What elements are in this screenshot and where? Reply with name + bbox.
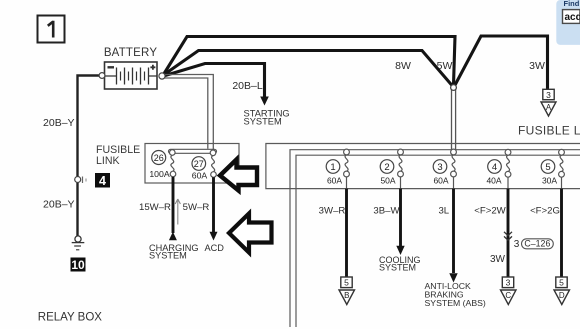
fuse 2 50A bbox=[380, 149, 403, 185]
svg-text:5: 5 bbox=[545, 162, 550, 173]
svg-text:FUSIBLE LINK: FUSIBLE LINK bbox=[518, 124, 580, 138]
svg-text:15W–R: 15W–R bbox=[139, 202, 171, 213]
callout 4 bbox=[95, 173, 110, 188]
flow arrow up bbox=[175, 199, 180, 225]
svg-text:BATTERY: BATTERY bbox=[104, 47, 158, 59]
svg-text:Find: Find bbox=[564, 0, 580, 8]
fuse 26 100A bbox=[149, 150, 175, 179]
svg-text:LINK: LINK bbox=[96, 155, 120, 167]
wire battery negative to ground bbox=[78, 76, 101, 237]
svg-text:3: 3 bbox=[506, 278, 511, 288]
wire fuse1 to connector B bbox=[346, 177, 348, 189]
svg-text:5: 5 bbox=[559, 278, 564, 288]
svg-text:1: 1 bbox=[330, 162, 335, 173]
svg-text:2: 2 bbox=[384, 162, 389, 173]
wire 5W top feed bbox=[164, 37, 456, 86]
svg-text:ACD: ACD bbox=[205, 243, 225, 253]
wire fuse4 to connector C bbox=[507, 177, 509, 188]
svg-text:3: 3 bbox=[437, 162, 442, 173]
svg-text:100A: 100A bbox=[149, 169, 169, 179]
relay box inner border bbox=[296, 155, 580, 327]
svg-text:3: 3 bbox=[546, 90, 551, 100]
wire battery to bus bar (inner thin) bbox=[164, 78, 208, 149]
svg-text:<F>2G: <F>2G bbox=[530, 206, 560, 217]
svg-text:D: D bbox=[559, 291, 565, 300]
connector 3-C bbox=[501, 277, 517, 305]
STARTING SYSTEM label bbox=[244, 108, 290, 126]
svg-text:4: 4 bbox=[99, 174, 106, 188]
COOLING SYSTEM label bbox=[379, 255, 421, 273]
page number box 1 bbox=[38, 16, 65, 43]
svg-text:A: A bbox=[546, 103, 552, 112]
svg-text:4: 4 bbox=[492, 162, 497, 173]
wire 5W-R to ACD bbox=[212, 177, 215, 232]
fusible link band (bus strip) bbox=[266, 144, 580, 189]
svg-text:3L: 3L bbox=[438, 206, 449, 217]
bus bar bbox=[169, 149, 217, 153]
fuse 3 60A bbox=[433, 149, 456, 185]
big arrow 2 bbox=[229, 214, 272, 253]
svg-text:60A: 60A bbox=[433, 176, 448, 186]
ANTI-LOCK BRAKING SYSTEM label bbox=[425, 281, 486, 308]
fuse 1 60A bbox=[326, 149, 349, 185]
svg-text:B: B bbox=[344, 291, 349, 300]
svg-text:SYSTEM: SYSTEM bbox=[149, 250, 187, 260]
svg-text:SYSTEM (ABS): SYSTEM (ABS) bbox=[425, 298, 486, 308]
wire 8W feed bbox=[164, 51, 453, 87]
connector 3-A bbox=[541, 89, 556, 116]
battery B bbox=[105, 62, 158, 89]
wire fuse2 to cooling system bbox=[400, 177, 402, 189]
svg-text:C–126: C–126 bbox=[524, 239, 550, 249]
svg-text:27: 27 bbox=[194, 159, 204, 169]
FUSIBLE LINK label left bbox=[96, 144, 140, 167]
svg-text:SYSTEM: SYSTEM bbox=[379, 263, 416, 273]
battery negative terminal bbox=[99, 73, 105, 79]
inline connector chevrons bbox=[504, 232, 512, 240]
svg-text:C: C bbox=[505, 291, 511, 300]
svg-text:5W–R: 5W–R bbox=[183, 202, 210, 213]
fuse 4 40A bbox=[486, 149, 510, 185]
connector 5-D bbox=[554, 277, 570, 305]
battery positive terminal bbox=[159, 73, 165, 79]
svg-text:8W: 8W bbox=[395, 60, 411, 72]
svg-text:RELAY BOX: RELAY BOX bbox=[38, 312, 102, 324]
svg-text:26: 26 bbox=[154, 153, 164, 163]
connector 5-B bbox=[339, 277, 355, 305]
svg-text:40A: 40A bbox=[486, 176, 501, 186]
fuse 5 30A bbox=[541, 149, 564, 185]
svg-text:3: 3 bbox=[514, 239, 520, 250]
wire battery to fuse 27 (outer thin) bbox=[164, 75, 214, 151]
svg-text:10: 10 bbox=[71, 258, 85, 272]
svg-text:20B–Y: 20B–Y bbox=[43, 117, 75, 129]
label 3 C-126 bbox=[514, 239, 554, 250]
fusible link box 26-27 bbox=[145, 144, 239, 184]
svg-text:3W: 3W bbox=[529, 60, 545, 72]
svg-text:20B–L: 20B–L bbox=[232, 80, 263, 92]
svg-text:20B–Y: 20B–Y bbox=[43, 199, 75, 211]
svg-text:50A: 50A bbox=[380, 176, 395, 186]
junction node bbox=[451, 85, 457, 91]
svg-text:3W–R: 3W–R bbox=[319, 206, 346, 217]
fuse 27 60A bbox=[192, 150, 217, 180]
fusible link inline symbol bbox=[75, 177, 86, 184]
wire fuse5 to connector D bbox=[561, 177, 563, 188]
svg-text:SYSTEM: SYSTEM bbox=[244, 116, 282, 126]
relay box outer border bbox=[290, 150, 580, 327]
big arrow 1 bbox=[220, 160, 257, 191]
svg-text:<F>2W: <F>2W bbox=[474, 206, 506, 217]
svg-text:60A: 60A bbox=[327, 176, 342, 186]
svg-text:60A: 60A bbox=[192, 170, 208, 180]
ground 10 bbox=[72, 236, 85, 250]
find panel bbox=[556, 0, 580, 45]
callout 10 bbox=[71, 258, 86, 273]
CHARGING SYSTEM label bbox=[149, 243, 199, 260]
wire 15W-R to charging system bbox=[172, 177, 175, 233]
svg-text:3W: 3W bbox=[490, 254, 506, 265]
svg-text:3B–W: 3B–W bbox=[373, 206, 400, 217]
wire 20B-L to starting system bbox=[164, 64, 265, 98]
svg-text:30A: 30A bbox=[542, 176, 557, 186]
wire 3W to connector A bbox=[455, 36, 548, 89]
wire fuse3 to ABS bbox=[453, 177, 455, 189]
svg-text:5: 5 bbox=[344, 278, 349, 288]
svg-text:acd: acd bbox=[565, 12, 580, 23]
wire junction to fuse 3 (double) bbox=[452, 89, 456, 150]
